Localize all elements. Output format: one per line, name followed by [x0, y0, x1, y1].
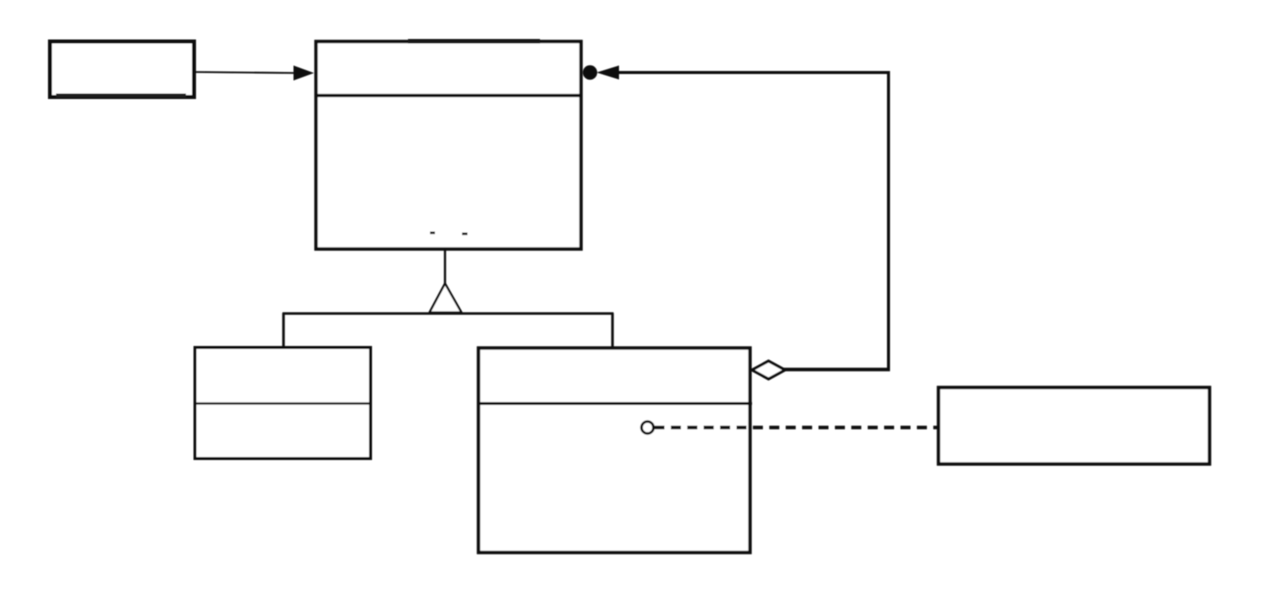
- subclass box A (left): [195, 348, 371, 459]
- main class compartment divider: [315, 94, 583, 97]
- branch drop wire right: [611, 313, 614, 348]
- wire from class A to main class: [194, 72, 296, 73]
- aggregation diamond on subclass B right edge: [752, 361, 785, 379]
- filled aggregation dot at main class right edge: [583, 65, 597, 79]
- subclass A divider: [195, 402, 373, 404]
- implementation circle: [642, 422, 654, 434]
- solid arrowhead pointing left at dot: [597, 66, 620, 80]
- subclass B divider: [478, 402, 753, 405]
- wire right vertical: [887, 71, 890, 370]
- ellipsis mark 2: [462, 233, 468, 236]
- branch drop wire left: [282, 313, 285, 348]
- solid arrowhead into main class: [294, 66, 315, 81]
- scan smudge on class A bottom edge: [56, 94, 186, 98]
- scan smudge on main class top edge: [408, 39, 540, 44]
- wire from corner to diamond: [783, 368, 890, 371]
- subclass box B (right large): [479, 348, 751, 553]
- class box A (top-left small): [50, 42, 194, 98]
- wire top-right horizontal: [618, 71, 890, 74]
- branch wire horizontal: [283, 312, 614, 315]
- note box (right): [939, 388, 1210, 465]
- main class box: [316, 42, 581, 250]
- dashed implementation wire: [655, 426, 938, 429]
- inheritance triangle: [430, 284, 462, 313]
- inheritance stem wire: [444, 249, 446, 286]
- ellipsis mark 1: [430, 232, 435, 235]
